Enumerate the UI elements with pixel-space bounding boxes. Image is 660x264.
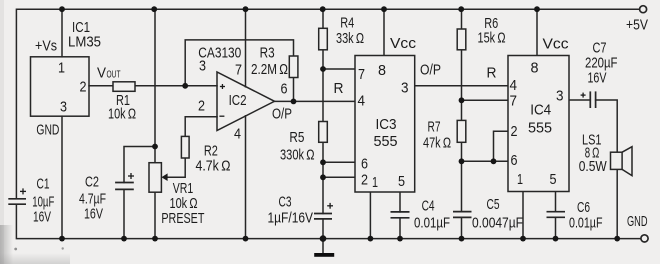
node dot opamp plus input (182, 83, 188, 89)
wire R4 line from +5V rail (322, 9, 324, 28)
scan speck near pin3 rail (62, 247, 64, 249)
IC1 LM35 box (31, 57, 90, 116)
svg-text:33k Ω: 33k Ω (336, 30, 364, 47)
svg-text:R3: R3 (260, 45, 275, 62)
resistor R1 (113, 82, 135, 92)
svg-text:16V: 16V (33, 209, 51, 226)
svg-text:2: 2 (198, 98, 205, 115)
capacitor C4 (391, 212, 410, 218)
terminal +5V (640, 6, 647, 13)
svg-text:7: 7 (358, 66, 365, 83)
wire R4 bottom to R5 top (322, 50, 324, 122)
svg-text:1: 1 (372, 174, 378, 191)
wire IC4 pin8 Vcc (536, 9, 538, 55)
svg-text:0.5W: 0.5W (579, 158, 608, 175)
node dot R4 bottom (320, 66, 326, 72)
node dot bottom rail x617 (614, 236, 620, 242)
wire IC4 pin6 (462, 160, 509, 162)
wire bottom ground rail (16, 204, 640, 238)
op-amp IC2 (217, 72, 275, 131)
wire LM35 pin3 to ground rail (61, 116, 63, 238)
svg-text:6: 6 (281, 81, 288, 98)
node dot bottom rail x555 (553, 236, 559, 242)
svg-text:V: V (97, 65, 106, 82)
wire R6 line from +5V rail (461, 9, 463, 29)
node dot IC4 pin2 tie (491, 158, 497, 164)
wire VR1 top line from +5V rail (154, 9, 156, 163)
scan speck near C1 (14, 248, 17, 251)
wire R5 bottom to C3 (322, 142, 324, 213)
node dot IC3 pin2 (320, 174, 326, 180)
svg-text:10k Ω: 10k Ω (108, 106, 136, 123)
node dot bottom rail x370 (368, 236, 374, 242)
capacitor C1 (8, 199, 26, 204)
svg-text:IC3: IC3 (376, 116, 397, 133)
label C3 plus (327, 203, 333, 209)
label C1 plus (20, 188, 26, 194)
label C2 plus (128, 173, 134, 179)
wire R2 top to op-amp pin2 (185, 117, 217, 137)
node dot top rail x62 (59, 6, 65, 12)
svg-text:IC2: IC2 (229, 92, 247, 109)
svg-text:2.2M Ω: 2.2M Ω (251, 61, 288, 78)
svg-text:Vcc: Vcc (543, 36, 570, 53)
svg-text:7: 7 (235, 62, 242, 79)
svg-text:PRESET: PRESET (161, 210, 204, 227)
svg-text:C1: C1 (37, 176, 50, 193)
wire feedback node to R3 top (185, 40, 293, 86)
node dot bottom rail x124 (121, 236, 127, 242)
svg-text:IC4: IC4 (530, 102, 551, 119)
wire IC3 pin3 to IC4 pin4 (415, 85, 508, 87)
wire LM35 pin1 to +5V rail (61, 9, 63, 57)
node dot top rail x537 (534, 6, 540, 12)
svg-text:OUT: OUT (107, 70, 121, 81)
wire C5 to ground rail (461, 217, 463, 238)
wire C2 to ground rail (123, 189, 125, 238)
svg-text:4.7k Ω: 4.7k Ω (196, 158, 231, 175)
svg-text:3: 3 (556, 88, 564, 105)
wire R1 to op-amp pin3 (135, 85, 217, 87)
wire op-amp pin7 to +5V rail (245, 9, 247, 87)
resistor R3 (289, 56, 298, 78)
node dot top rail x155 (151, 6, 157, 12)
node dot top rail x245 (243, 6, 249, 12)
wire IC3 pin6 (323, 161, 355, 163)
svg-text:2: 2 (80, 79, 87, 96)
svg-text:555: 555 (528, 120, 552, 137)
svg-text:GND: GND (36, 122, 59, 139)
svg-text:4: 4 (510, 77, 518, 94)
svg-text:7: 7 (510, 93, 518, 110)
capacitor C3 (314, 214, 332, 219)
ground symbol stem (322, 239, 324, 253)
svg-text:O/P: O/P (272, 105, 292, 122)
svg-text:O/P: O/P (420, 62, 441, 79)
svg-text:Vcc: Vcc (390, 35, 417, 52)
svg-text:+5V: +5V (626, 17, 648, 34)
svg-text:0.0047µF: 0.0047µF (472, 215, 523, 232)
svg-text:8: 8 (531, 60, 539, 77)
wire IC3 pin2 (323, 176, 355, 178)
wire VR1 bottom to ground rail (154, 192, 156, 238)
svg-text:16V: 16V (84, 206, 103, 223)
svg-text:C4: C4 (422, 198, 435, 215)
resistor R7 (457, 120, 466, 142)
node dot top rail x461 (458, 6, 464, 12)
wire VR1 wiper to R2 bottom (167, 158, 185, 177)
svg-text:C6: C6 (577, 199, 590, 216)
svg-text:330k Ω: 330k Ω (280, 147, 315, 164)
potentiometer VR1 (149, 163, 161, 193)
wire C2 branch (124, 147, 155, 183)
svg-text:5: 5 (550, 171, 557, 188)
wire IC3 pin7 (323, 68, 355, 70)
resistor R6 (457, 29, 466, 50)
wire IC4 pin3 to C7 (569, 99, 590, 101)
node dot R3 output (291, 99, 297, 105)
wire R7 bottom to C5 (461, 142, 463, 211)
svg-text:C3: C3 (279, 194, 292, 211)
capacitor C7 (590, 91, 595, 108)
svg-text:C5: C5 (487, 196, 500, 213)
label C7 plus (581, 93, 586, 98)
wire C7 to speaker (596, 100, 618, 152)
node dot bottom rail x155 (152, 236, 158, 242)
svg-text:15k Ω: 15k Ω (478, 30, 506, 47)
svg-text:C2: C2 (85, 174, 99, 191)
node dot bottom rail x461 (459, 236, 465, 242)
svg-text:R: R (487, 65, 497, 82)
svg-text:R: R (334, 80, 344, 97)
wire speaker to ground rail (616, 169, 618, 238)
svg-text:4: 4 (234, 126, 241, 143)
svg-text:LM35: LM35 (68, 34, 101, 51)
wire top supply rail (16, 9, 639, 199)
wire C6 to ground rail (555, 217, 557, 238)
node dot IC3 pin6 (320, 159, 326, 165)
node dot bottom rail x245 (243, 236, 249, 242)
wire IC3 pin5 to C4 (399, 192, 401, 212)
svg-text:GND: GND (627, 213, 648, 230)
IC3 555 box (355, 56, 415, 193)
svg-text:6: 6 (361, 156, 368, 173)
wire R3 bottom to output (293, 78, 295, 102)
capacitor C5 (453, 212, 472, 218)
wire op-amp output to IC3 pin4 (275, 100, 356, 102)
svg-text:R5: R5 (289, 129, 304, 146)
wire IC4 pin7 (462, 99, 509, 101)
node dot bottom rail x400 (397, 236, 403, 242)
svg-text:0.01µF: 0.01µF (414, 215, 450, 232)
svg-text:16V: 16V (588, 70, 607, 87)
svg-text:3: 3 (199, 58, 206, 75)
node dot bottom rail x523 (520, 236, 526, 242)
wire IC3 pin1 to ground rail (369, 192, 371, 239)
svg-text:3: 3 (401, 80, 409, 97)
svg-text:1: 1 (517, 171, 523, 188)
VR1 wiper arrow (161, 173, 167, 181)
resistor R4 (319, 28, 328, 50)
svg-text:R4: R4 (340, 15, 354, 32)
svg-text:3: 3 (60, 99, 67, 116)
wire op-amp pin4 to ground rail (245, 116, 247, 239)
svg-text:555: 555 (374, 133, 398, 150)
resistor R2 (181, 136, 189, 158)
wire C3 to ground rail (322, 219, 324, 239)
node dot bottom rail x323 ground (320, 235, 327, 242)
svg-text:1: 1 (58, 60, 65, 77)
svg-text:+Vs: +Vs (35, 38, 57, 55)
wire R6 bottom to R7 top (461, 50, 463, 121)
svg-text:2: 2 (361, 172, 368, 189)
svg-text:5: 5 (398, 173, 405, 190)
wire IC4 pin5 to C6 (555, 192, 557, 212)
resistor R5 (319, 122, 328, 143)
node dot top rail x323 (320, 6, 326, 12)
svg-text:R7: R7 (428, 119, 441, 136)
svg-text:8: 8 (378, 62, 386, 79)
svg-text:0.01µF: 0.01µF (569, 215, 603, 232)
node dot top rail x384 (381, 6, 387, 12)
svg-text:1µF/16V: 1µF/16V (268, 210, 314, 227)
wire C4 to ground rail (399, 218, 401, 239)
capacitor C2 (115, 183, 134, 190)
svg-text:6: 6 (511, 152, 518, 169)
svg-text:47k Ω: 47k Ω (423, 135, 451, 152)
wire LM35 pin2 to R1 (89, 85, 113, 87)
node dot R7 bottom (459, 158, 465, 164)
node dot C2 branch (152, 144, 158, 150)
label opamp plus (220, 84, 225, 89)
terminal GND (641, 235, 648, 242)
node dot R6 bottom (459, 97, 465, 103)
IC4 555 box (508, 56, 569, 192)
svg-text:2: 2 (511, 123, 518, 140)
label opamp minus (219, 115, 224, 117)
wire IC4 pin1 to ground rail (522, 192, 524, 239)
wire IC4 pin2 tie to pin6 (494, 131, 509, 161)
wire IC3 pin8 Vcc (383, 9, 385, 55)
ground symbol bar (314, 253, 334, 257)
svg-text:4: 4 (358, 93, 366, 110)
node dot bottom rail x62 (59, 236, 65, 242)
capacitor C6 (547, 212, 566, 218)
speaker LS1 (611, 152, 623, 169)
